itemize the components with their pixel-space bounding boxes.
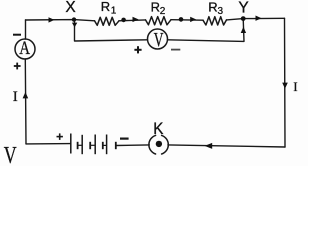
- svg-text:V: V: [4, 143, 17, 166]
- svg-text:3: 3: [218, 6, 224, 17]
- svg-text:R: R: [208, 0, 217, 15]
- svg-text:A: A: [19, 38, 30, 59]
- svg-text:I: I: [293, 80, 297, 94]
- svg-text:R: R: [101, 0, 110, 14]
- svg-text:K: K: [153, 120, 163, 138]
- svg-text:I: I: [13, 89, 18, 105]
- svg-text:V: V: [154, 29, 164, 51]
- svg-text:Y: Y: [238, 0, 248, 17]
- svg-text:1: 1: [111, 6, 117, 17]
- svg-text:R: R: [151, 0, 160, 15]
- svg-text:2: 2: [160, 6, 166, 17]
- svg-text:X: X: [65, 0, 76, 16]
